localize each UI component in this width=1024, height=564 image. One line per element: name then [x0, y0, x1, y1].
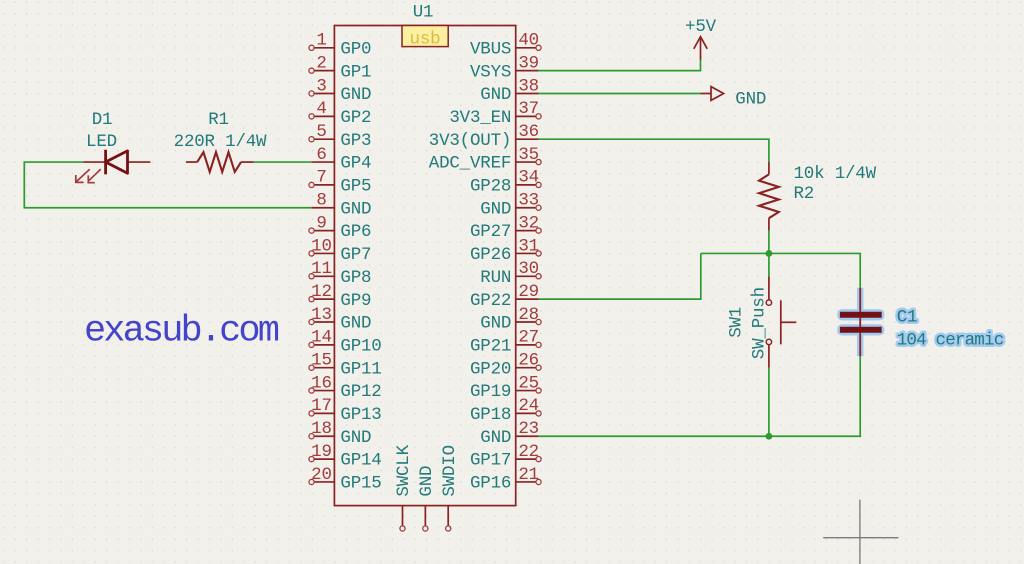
- svg-text:U1: U1: [413, 3, 434, 23]
- svg-text:29: 29: [518, 282, 539, 302]
- svg-text:3V3_EN: 3V3_EN: [449, 108, 511, 128]
- U1 pin 17 GP13: [309, 396, 382, 425]
- svg-text:7: 7: [316, 168, 326, 188]
- svg-text:GP18: GP18: [470, 405, 511, 425]
- svg-text:21: 21: [518, 465, 539, 485]
- SW1 value SW_Push: [750, 287, 770, 359]
- U1 usb connector box: [402, 26, 448, 50]
- U1 pin 26 GP20: [470, 351, 541, 380]
- svg-text:GP14: GP14: [340, 451, 381, 471]
- U1 pin 16 GP12: [309, 373, 382, 402]
- svg-text:GP28: GP28: [470, 177, 511, 197]
- U1 pin 8 GND: [312, 191, 372, 220]
- U1 pin 10 GP7: [309, 236, 371, 265]
- svg-text:22: 22: [518, 442, 539, 462]
- svg-text:GP19: GP19: [470, 382, 511, 402]
- R2 value 10k 1/4W: [794, 164, 877, 184]
- wire LED loop: pin6 GP4 row to R1, LED, back to pin8 GND: [254, 161, 312, 163]
- U1 pin 34 GP28: [470, 168, 541, 197]
- svg-text:3: 3: [316, 76, 326, 96]
- U1 pin 11 GP8: [309, 259, 371, 288]
- svg-text:5: 5: [316, 122, 326, 142]
- svg-text:GND: GND: [340, 199, 371, 219]
- svg-text:16: 16: [311, 373, 332, 393]
- svg-text:GP13: GP13: [340, 405, 381, 425]
- svg-text:GND: GND: [340, 428, 371, 448]
- svg-text:GP9: GP9: [340, 291, 371, 311]
- U1 pin 6 GP4: [312, 145, 372, 174]
- svg-text:40: 40: [518, 31, 539, 51]
- switch SW1 SW_Push: [766, 276, 796, 367]
- U1 pin 31 GP26: [470, 236, 541, 265]
- svg-text:2: 2: [316, 53, 326, 73]
- D1 value LED: [86, 132, 117, 152]
- svg-text:33: 33: [518, 191, 539, 211]
- svg-text:20: 20: [311, 465, 332, 485]
- svg-text:RUN: RUN: [480, 268, 511, 288]
- wire GP22 pin29 up to junction row: [539, 253, 701, 299]
- U1 pin 4 GP2: [309, 99, 371, 128]
- svg-text:+5V: +5V: [685, 17, 717, 37]
- svg-text:ADC_VREF: ADC_VREF: [429, 154, 511, 174]
- U1 bottom pin SWCLK: [394, 444, 414, 531]
- svg-text:13: 13: [311, 305, 332, 325]
- svg-text:8: 8: [316, 191, 326, 211]
- svg-text:GP26: GP26: [470, 245, 511, 265]
- svg-text:35: 35: [518, 145, 539, 165]
- U1 pin 1 GP0: [309, 31, 371, 60]
- svg-text:GND: GND: [417, 466, 437, 497]
- svg-text:GP3: GP3: [340, 131, 371, 151]
- wire junction to SW1 top: [768, 253, 770, 276]
- wire GND pin23 row to C1 bottom: [539, 356, 861, 436]
- svg-text:27: 27: [518, 328, 539, 348]
- svg-text:36: 36: [518, 122, 539, 142]
- svg-text:38: 38: [518, 76, 539, 96]
- wire R2 bottom to junction node: [768, 231, 770, 254]
- U1 pin 27 GP21: [470, 328, 541, 357]
- svg-text:GND: GND: [480, 428, 511, 448]
- svg-text:GP15: GP15: [340, 474, 381, 494]
- svg-text:GND: GND: [480, 314, 511, 334]
- U1 pin 9 GP6: [309, 213, 371, 242]
- resistor R1: [186, 152, 254, 172]
- U1 pin 12 GP9: [309, 282, 371, 311]
- svg-text:34: 34: [518, 168, 539, 188]
- svg-text:28: 28: [518, 305, 539, 325]
- svg-text:220R 1/4W: 220R 1/4W: [174, 132, 267, 152]
- svg-text:VSYS: VSYS: [470, 62, 511, 82]
- wire VSYS pin39 to +5V: [539, 60, 701, 71]
- svg-text:32: 32: [518, 213, 539, 233]
- svg-text:10k 1/4W: 10k 1/4W: [794, 164, 877, 184]
- svg-text:GP10: GP10: [340, 336, 381, 356]
- U1 pin 32 GP27: [470, 213, 541, 242]
- svg-text:LED: LED: [86, 132, 117, 152]
- R1 value 220R 1/4W: [174, 132, 267, 152]
- U1 reference designator: [413, 3, 434, 23]
- svg-text:exasub.com: exasub.com: [84, 311, 279, 353]
- svg-text:10: 10: [311, 236, 332, 256]
- U1 pin 33 GND: [480, 191, 541, 220]
- svg-text:15: 15: [311, 351, 332, 371]
- svg-text:VBUS: VBUS: [470, 39, 511, 59]
- U1 pin 23 GND: [480, 419, 539, 448]
- svg-text:SW1: SW1: [726, 307, 746, 338]
- svg-text:GP2: GP2: [340, 108, 371, 128]
- junction at GND row / SW1 bottom: [766, 433, 773, 440]
- resistor R2: [759, 162, 779, 231]
- wire 3V3(OUT) pin36 to R2 top: [539, 139, 769, 162]
- svg-text:GND: GND: [480, 199, 511, 219]
- svg-text:31: 31: [518, 236, 539, 256]
- svg-text:GP21: GP21: [470, 336, 511, 356]
- U1 pin 20 GP15: [309, 465, 382, 494]
- svg-text:SW_Push: SW_Push: [750, 287, 770, 359]
- U1 pin 15 GP11: [309, 351, 382, 380]
- svg-text:GP22: GP22: [470, 291, 511, 311]
- svg-text:GND: GND: [340, 85, 371, 105]
- U1 pin 13 GND: [309, 305, 371, 334]
- svg-text:C1: C1: [897, 308, 918, 328]
- U1 pin 14 GP10: [309, 328, 382, 357]
- svg-text:39: 39: [518, 53, 539, 73]
- diode D1 LED: [76, 150, 151, 183]
- svg-text:30: 30: [518, 259, 539, 279]
- svg-text:18: 18: [311, 419, 332, 439]
- svg-text:GND: GND: [480, 85, 511, 105]
- U1 bottom pin SWDIO: [440, 445, 460, 531]
- U1 pin 38 GND: [480, 76, 539, 105]
- U1 pin 25 GP19: [470, 373, 541, 402]
- svg-text:SWDIO: SWDIO: [440, 445, 460, 497]
- svg-text:GP0: GP0: [340, 39, 371, 59]
- svg-text:1: 1: [316, 31, 326, 51]
- svg-text:GP16: GP16: [470, 474, 511, 494]
- svg-text:GP11: GP11: [340, 359, 381, 379]
- svg-text:R1: R1: [208, 110, 229, 130]
- svg-text:23: 23: [518, 419, 539, 439]
- svg-text:24: 24: [518, 396, 539, 416]
- svg-text:GP8: GP8: [340, 268, 371, 288]
- svg-text:GP27: GP27: [470, 222, 511, 242]
- svg-text:14: 14: [311, 328, 332, 348]
- svg-text:GND: GND: [340, 314, 371, 334]
- U1 bottom pin GND: [417, 466, 437, 531]
- U1 pin 37 3V3_EN: [449, 99, 541, 128]
- C1 value 104 ceramic: [897, 330, 1004, 350]
- U1 pin 5 GP3: [309, 122, 371, 151]
- U1 pin 3 GND: [309, 76, 371, 105]
- svg-text:GP17: GP17: [470, 451, 511, 471]
- svg-text:25: 25: [518, 373, 539, 393]
- svg-text:GP5: GP5: [340, 177, 371, 197]
- power symbol GND (right-pointing flag): [701, 87, 767, 110]
- svg-text:GP1: GP1: [340, 62, 371, 82]
- svg-text:19: 19: [311, 442, 332, 462]
- svg-text:GND: GND: [735, 90, 766, 110]
- svg-text:12: 12: [311, 282, 332, 302]
- U1 pin 19 GP14: [309, 442, 382, 471]
- svg-text:104 ceramic: 104 ceramic: [897, 330, 1004, 350]
- text exasub.com: [84, 311, 279, 353]
- svg-text:SWCLK: SWCLK: [394, 444, 414, 496]
- wire from LED anode to left rail down to pin8 GND: [24, 162, 311, 208]
- svg-text:9: 9: [316, 213, 326, 233]
- U1 pin 36 3V3(OUT): [429, 122, 539, 151]
- svg-text:6: 6: [316, 145, 326, 165]
- U1 pin 29 GP22: [470, 282, 539, 311]
- svg-text:GP20: GP20: [470, 359, 511, 379]
- svg-text:3V3(OUT): 3V3(OUT): [429, 131, 511, 151]
- svg-text:37: 37: [518, 99, 539, 119]
- U1 pin 18 GND: [309, 419, 371, 448]
- svg-text:26: 26: [518, 351, 539, 371]
- U1 pin 35 ADC_VREF: [429, 145, 541, 174]
- wire junction row to C1 top corner: [701, 253, 860, 287]
- svg-text:17: 17: [311, 396, 332, 416]
- U1 pin 24 GP18: [470, 396, 541, 425]
- D1 reference designator: [92, 110, 113, 130]
- svg-text:D1: D1: [92, 110, 113, 130]
- wire SW1 bottom to GND row: [768, 368, 770, 437]
- wire GND pin38 to GND symbol: [539, 93, 701, 95]
- U1 pin 40 VBUS: [470, 31, 541, 60]
- svg-text:R2: R2: [794, 184, 815, 204]
- svg-text:GP12: GP12: [340, 382, 381, 402]
- U1 pin 22 GP17: [470, 442, 541, 471]
- U1 pin 21 GP16: [470, 465, 541, 494]
- svg-text:4: 4: [316, 99, 326, 119]
- svg-text:GP4: GP4: [340, 154, 371, 174]
- cursor crosshair: [823, 500, 898, 564]
- U1 pin 39 VSYS: [470, 53, 539, 82]
- R1 reference designator: [208, 110, 229, 130]
- op-amp U1 body (IC Pico): [334, 26, 515, 506]
- C1 reference designator: [897, 308, 918, 328]
- U1 pin 30 RUN: [480, 259, 541, 288]
- svg-text:usb: usb: [410, 30, 441, 50]
- U1 pin 7 GP5: [309, 168, 371, 197]
- junction at R2 bottom / SW1 / C1 row: [766, 250, 773, 257]
- svg-text:11: 11: [311, 259, 332, 279]
- svg-text:GP7: GP7: [340, 245, 371, 265]
- U1 pin 2 GP1: [309, 53, 371, 82]
- SW1 reference designator: [726, 307, 746, 338]
- svg-text:GP6: GP6: [340, 222, 371, 242]
- capacitor C1: [837, 288, 884, 357]
- power symbol +5V: [685, 17, 717, 60]
- U1 pin 28 GND: [480, 305, 541, 334]
- R2 reference designator: [794, 184, 815, 204]
